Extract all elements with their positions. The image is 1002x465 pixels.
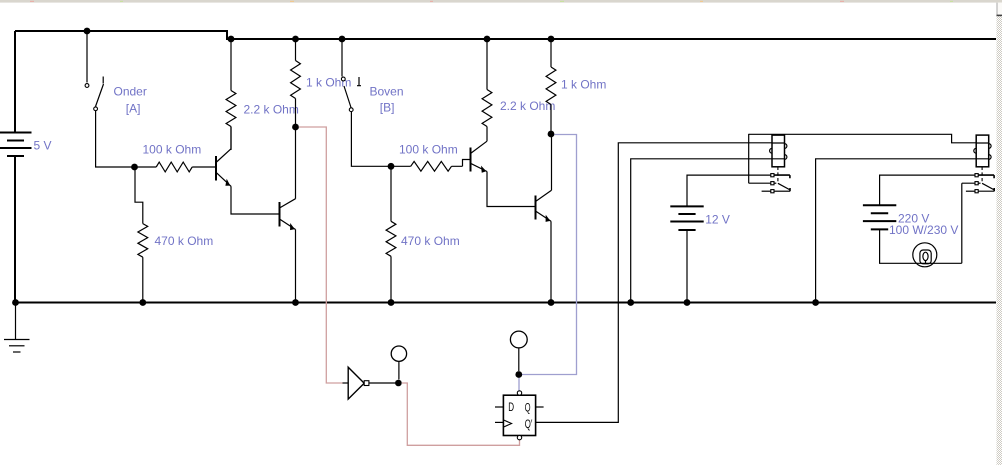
junction dot above flip-flop bbox=[515, 371, 522, 378]
wire top rail bbox=[15, 31, 996, 39]
relay RL2 actuator dashes bbox=[981, 167, 983, 183]
relay RL1 actuator dashes bbox=[777, 167, 779, 183]
junction dot bottom-left corner bbox=[12, 299, 19, 306]
wire relay RL2 coil to 0V rail bbox=[816, 159, 977, 303]
wire RL2 common to lamp bbox=[962, 183, 975, 263]
probe P1 circle bbox=[398, 361, 400, 379]
wire inverter output to node bbox=[369, 382, 399, 384]
wire 12V- to 0V rail bbox=[686, 230, 688, 303]
relay RL1 coil bbox=[770, 135, 787, 167]
wire flip-flop Qbar to relay RL1 coil bbox=[536, 143, 772, 423]
svg-text:D: D bbox=[508, 400, 514, 414]
set bubble (top) bbox=[517, 391, 521, 395]
relay RL2 coil bbox=[974, 135, 991, 167]
wire relay RL1 coil to 0V rail bbox=[631, 159, 772, 303]
junction dot switch-A / top rail bbox=[84, 28, 91, 35]
relay RL2 contacts bbox=[966, 174, 994, 193]
node: 1k-A bottom / Q2 collector / red wire tap bbox=[292, 124, 299, 131]
ground bbox=[4, 303, 30, 353]
battery V1 5V bbox=[0, 133, 32, 157]
red wire: inverter output to flip-flop reset bbox=[402, 383, 520, 445]
resistor R1 100k (stage A) bbox=[135, 162, 216, 172]
pin stubs D / clk / Q / Qbar bbox=[495, 407, 544, 422]
node: 1k-B bottom / Q4 collector / blue wire tap bbox=[548, 131, 555, 138]
transistor Q2 (NPN) bbox=[280, 127, 296, 303]
junction dot 470k-A bottom bbox=[139, 299, 146, 306]
inverter U1 (NOT gate) bbox=[343, 382, 349, 384]
svg-text:470 k Ohm: 470 k Ohm bbox=[155, 234, 214, 248]
junction dot top rail / 2.2k B bbox=[484, 36, 491, 43]
reset bubble (bottom) bbox=[517, 435, 521, 439]
junction dot 12V / bottom rail bbox=[684, 299, 691, 306]
svg-text:5 V: 5 V bbox=[34, 139, 52, 153]
resistor R4 1k (stage A) bbox=[291, 39, 301, 127]
resistor R3 2.2k (stage A) bbox=[226, 39, 236, 150]
junction dot 470k-B bottom bbox=[388, 299, 395, 306]
resistor R8 1k (stage B) bbox=[546, 39, 556, 134]
junction dot top rail / 1k B bbox=[548, 36, 555, 43]
junction dot top rail / 1k A bbox=[292, 36, 299, 43]
junction dot inverter output bbox=[395, 380, 402, 387]
junction dot coil-ground / bottom rail bbox=[627, 299, 634, 306]
switch A "Onder" bbox=[85, 31, 134, 167]
wire bottom rail (0V) bbox=[15, 302, 996, 304]
red wire: 1k-A node to inverter input bbox=[299, 127, 343, 383]
wire 220V+ to relay RL2 contact bbox=[880, 175, 975, 205]
wire left rail bbox=[14, 31, 16, 303]
wire 12V+ to relay RL1 contact bbox=[687, 175, 771, 206]
node A junction bbox=[131, 164, 138, 171]
svg-text:[A]: [A] bbox=[126, 102, 141, 116]
lamp L1 100W bbox=[913, 243, 937, 267]
svg-text:1 k Ohm: 1 k Ohm bbox=[561, 78, 606, 92]
svg-text:Q: Q bbox=[525, 401, 531, 415]
switch B "Boven" bbox=[341, 39, 391, 166]
resistor R2 470k (stage A) bbox=[135, 167, 148, 303]
wire relay RL1 common riser bbox=[749, 134, 771, 183]
junction dot Q2 emitter / bottom rail bbox=[292, 299, 299, 306]
node B junction bbox=[388, 163, 395, 170]
junction dot RL2 coil ground / bottom rail bbox=[812, 299, 819, 306]
clock triangle bbox=[503, 420, 511, 427]
battery V2 12V bbox=[670, 206, 703, 230]
transistor Q1 (NPN) bbox=[216, 127, 280, 215]
junction dot top rail / 2.2k A bbox=[228, 36, 235, 43]
svg-text:Boven: Boven bbox=[370, 85, 404, 99]
inverter output square bubble bbox=[364, 381, 369, 386]
transistor Q4 (NPN) bbox=[536, 134, 552, 303]
flip-flop U2 (D flip-flop) bbox=[503, 395, 535, 435]
toolbar sliver top bbox=[0, 0, 1002, 3]
relay RL1 contacts bbox=[762, 174, 790, 193]
junction dot switch-B / top rail bbox=[339, 36, 346, 43]
svg-text:Q′: Q′ bbox=[525, 417, 533, 431]
svg-text:100 k Ohm: 100 k Ohm bbox=[143, 143, 202, 157]
wire relay RL1 common to relay RL2 coil bbox=[749, 134, 977, 143]
svg-text:470 k Ohm: 470 k Ohm bbox=[401, 234, 460, 248]
resistor R7 2.2k (stage B) bbox=[482, 39, 492, 141]
svg-text:100 W/230 V: 100 W/230 V bbox=[889, 223, 958, 237]
probe P2 circle bbox=[518, 348, 520, 371]
junction dot Q4 emitter / bottom rail bbox=[548, 299, 555, 306]
wire 220V- to lamp bbox=[880, 229, 962, 263]
resistor R5 100k (stage B) bbox=[391, 160, 471, 172]
battery V3 220V bbox=[863, 205, 896, 229]
svg-text:Onder: Onder bbox=[114, 85, 147, 99]
svg-text:2.2 k Ohm: 2.2 k Ohm bbox=[244, 103, 299, 117]
transistor Q3 (NPN) bbox=[471, 141, 536, 206]
svg-text:12 V: 12 V bbox=[705, 213, 730, 227]
blue wire: 1k-B node to flip-flop set input bbox=[519, 135, 577, 391]
svg-text:100 k Ohm: 100 k Ohm bbox=[399, 143, 458, 157]
svg-text:[B]: [B] bbox=[380, 101, 395, 115]
resistor R6 470k (stage B) bbox=[386, 166, 396, 302]
